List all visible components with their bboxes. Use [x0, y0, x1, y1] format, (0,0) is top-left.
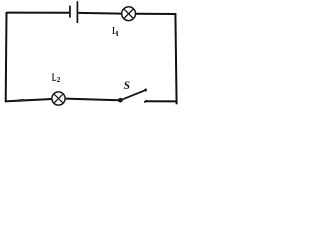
- switch S pivot node: [118, 98, 123, 103]
- battery B1: [70, 1, 78, 23]
- wire lamp L2 to switch: [66, 99, 120, 101]
- lamp L2: [52, 92, 65, 105]
- wire switch to bottom-right corner: [145, 100, 177, 102]
- wire thickening smudge: [19, 99, 25, 102]
- svg-text:S: S: [124, 80, 130, 92]
- wire lamp L1 to top-right corner: [136, 13, 177, 15]
- switch contact hook: [144, 100, 147, 102]
- svg-text:2: 2: [57, 75, 61, 84]
- wire left side: [5, 12, 8, 102]
- switch blade tip blob: [144, 89, 147, 92]
- wire top-left segment: [7, 12, 70, 14]
- wire right side: [175, 13, 176, 104]
- wire battery to lamp L1: [78, 12, 122, 15]
- wire bottom-left segment: [5, 99, 52, 101]
- svg-text:1: 1: [115, 29, 119, 38]
- lamp L1: [122, 7, 136, 21]
- switch S blade: [121, 90, 146, 100]
